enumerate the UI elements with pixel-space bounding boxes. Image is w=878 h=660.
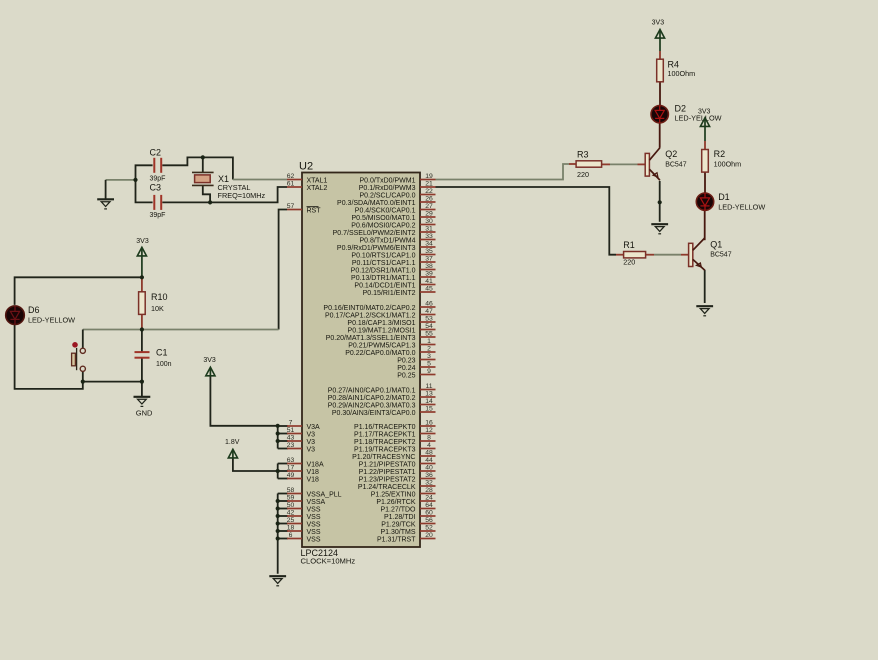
svg-text:23: 23: [287, 442, 295, 449]
svg-text:100Ohm: 100Ohm: [714, 160, 742, 169]
U2 pin 46 (P0.16/EINT0/MAT0.2/CAP0.2): [323, 300, 435, 312]
wire XTAL2 net: C3 to pin 61: [162, 187, 287, 202]
svg-text:P0.20/MAT1.3/SSEL1/EINT3: P0.20/MAT1.3/SSEL1/EINT3: [326, 335, 416, 342]
wire R4 bottom pin to D2 anode: [659, 82, 661, 106]
svg-text:P1.26/RTCK: P1.26/RTCK: [376, 499, 415, 506]
wire RST net vertical: [279, 210, 287, 330]
svg-text:P0.17/CAP1.2/SCK1/MAT1.2: P0.17/CAP1.2/SCK1/MAT1.2: [325, 312, 416, 319]
crystal X1: [192, 172, 265, 200]
U2 pin 40 (P1.22/PIPESTAT1): [359, 464, 436, 476]
svg-text:P1.22/PIPESTAT1: P1.22/PIPESTAT1: [359, 469, 416, 476]
power 3V3 at R4: [652, 20, 665, 51]
svg-text:1.8V: 1.8V: [225, 439, 240, 446]
svg-text:41: 41: [425, 278, 433, 285]
svg-text:V18: V18: [307, 469, 320, 476]
svg-text:59: 59: [287, 494, 295, 501]
svg-text:VSS: VSS: [307, 514, 321, 521]
U2 pin 25 (VSS): [287, 517, 321, 529]
svg-text:CLOCK=10MHz: CLOCK=10MHz: [301, 557, 356, 566]
wire Q1 emitter to ground: [704, 270, 706, 303]
svg-text:52: 52: [425, 524, 433, 531]
svg-text:10K: 10K: [151, 304, 164, 313]
svg-text:P0.1/RxD0/PWM3: P0.1/RxD0/PWM3: [359, 185, 416, 192]
svg-text:V3: V3: [307, 431, 316, 438]
junction VSS bus c: [276, 514, 280, 518]
resistor R2: [702, 149, 741, 172]
svg-text:P0.6/MOSI0/CAP0.2: P0.6/MOSI0/CAP0.2: [351, 222, 415, 229]
U2 pin 22 (P0.2/SCL/CAP0.0): [359, 188, 435, 200]
junction cap ground bus: [133, 178, 137, 182]
svg-text:P1.27/TDO: P1.27/TDO: [380, 506, 416, 513]
svg-text:32: 32: [425, 479, 433, 486]
svg-text:47: 47: [425, 308, 433, 315]
svg-text:P1.18/TRACEPKT2: P1.18/TRACEPKT2: [354, 439, 416, 446]
svg-text:21: 21: [425, 180, 433, 187]
U2 pin 26 (P0.3/SDA/MAT0.0/EINT1): [337, 195, 435, 207]
U2 pin 4 (P1.19/TRACEPKT3): [354, 442, 435, 454]
svg-text:D1: D1: [718, 192, 730, 202]
svg-text:LED-YELLOW: LED-YELLOW: [28, 316, 75, 325]
svg-text:18: 18: [287, 524, 295, 531]
push button: [72, 342, 86, 371]
svg-text:40: 40: [425, 464, 433, 471]
junction VSS bus e: [276, 529, 280, 533]
svg-text:P1.31/TRST: P1.31/TRST: [377, 536, 416, 543]
U2 pin 52 (P1.30/TMS): [380, 524, 435, 536]
wire D6 cathode to button bottom: [15, 324, 83, 389]
svg-text:P0.24: P0.24: [397, 365, 415, 372]
U2 pin 58 (VSSA_PLL): [287, 487, 342, 499]
svg-text:64: 64: [425, 502, 433, 509]
wire power bus stub: [278, 530, 288, 532]
svg-text:51: 51: [287, 427, 295, 434]
svg-text:RST: RST: [307, 207, 322, 214]
power 3V3 at V3 pins: [203, 357, 216, 376]
svg-text:P1.30/TMS: P1.30/TMS: [380, 529, 415, 536]
U2 pin 57 (RST): [287, 203, 322, 215]
ground below Q1: [696, 306, 713, 316]
svg-text:2: 2: [427, 345, 431, 352]
ground below U2: [269, 576, 286, 586]
svg-text:P0.8/TxD1/PWM4: P0.8/TxD1/PWM4: [359, 237, 415, 244]
wire power bus stub: [278, 470, 288, 472]
svg-text:14: 14: [425, 398, 433, 405]
svg-text:16: 16: [425, 419, 433, 426]
wire 1.8V to V18 pins: [233, 458, 278, 471]
svg-text:P0.13/DTR1/MAT1.1: P0.13/DTR1/MAT1.1: [351, 275, 416, 282]
U2 pin 53 (P0.18/CAP1.3/MISO1): [347, 315, 435, 327]
svg-text:36: 36: [425, 472, 433, 479]
wire power bus stub: [278, 433, 288, 435]
U2 pin 49 (V18): [287, 472, 319, 484]
capacitor C3: [150, 182, 166, 219]
ground below C1: [134, 397, 151, 407]
wire power bus stub: [278, 523, 288, 525]
wire P0.1 net from pin 21: [436, 187, 617, 255]
resistor R1: [623, 240, 645, 266]
junction Q2 emitter wire: [658, 200, 662, 204]
wire R3 left pin: [569, 163, 576, 165]
svg-text:C3: C3: [150, 182, 162, 192]
svg-text:V3: V3: [307, 439, 316, 446]
U2 pin 6 (VSS): [287, 532, 321, 544]
svg-text:13: 13: [425, 390, 433, 397]
svg-text:61: 61: [287, 180, 295, 187]
U2 pin 51 (V3): [287, 427, 315, 439]
svg-text:24: 24: [425, 494, 433, 501]
wire button bottom to C1 bottom: [83, 372, 142, 382]
wire power bus stub: [278, 478, 288, 480]
U2 pin 38 (P0.12/DSR1/MAT1.0): [351, 263, 436, 275]
resistor R10: [139, 292, 168, 315]
resistor R3: [576, 150, 602, 179]
svg-text:17: 17: [287, 464, 295, 471]
wire C1 top stem: [141, 330, 143, 352]
capacitor C2: [150, 148, 166, 183]
U2 pin 8 (P1.18/TRACEPKT2): [354, 434, 435, 446]
junction VSS bus f: [276, 536, 280, 540]
U2 pin 13 (P0.28/AIN1/CAP0.2/MAT0.2): [328, 390, 436, 402]
svg-text:D6: D6: [28, 305, 40, 315]
svg-text:25: 25: [287, 517, 295, 524]
wire R10 bottom pin: [141, 315, 143, 330]
wire power bus stub: [278, 500, 288, 502]
svg-text:3V3: 3V3: [203, 357, 216, 364]
wire R1 left pin: [616, 254, 624, 256]
svg-text:P1.17/TRACEPKT1: P1.17/TRACEPKT1: [354, 431, 416, 438]
svg-text:P1.20/TRACESYNC: P1.20/TRACESYNC: [352, 454, 415, 461]
U2 pin 45 (P0.15/RI1/EINT2): [363, 285, 436, 297]
wire Q2 emitter to ground: [659, 181, 661, 222]
wire ground branch from cap bus: [106, 179, 136, 181]
svg-text:33: 33: [425, 233, 433, 240]
U2 pin 30 (P0.6/MOSI0/CAP0.2): [351, 218, 435, 230]
svg-text:R2: R2: [714, 149, 726, 159]
transistor Q2: [645, 148, 687, 180]
wire R2 top pin: [704, 141, 706, 150]
U2 pin 61 (XTAL2): [287, 180, 328, 192]
svg-text:R4: R4: [668, 59, 680, 69]
U2 pin 2 (P0.22/CAP0.0/MAT0.0): [345, 345, 435, 357]
IC U2 LPC2124 body: [299, 161, 420, 566]
svg-text:34: 34: [425, 240, 433, 247]
wire power bus stub: [278, 538, 288, 540]
LED D2: [651, 103, 722, 123]
svg-text:VSS: VSS: [307, 536, 321, 543]
wire VSS bus to ground: [277, 494, 279, 574]
svg-text:P0.28/AIN1/CAP0.2/MAT0.2: P0.28/AIN1/CAP0.2/MAT0.2: [328, 395, 416, 402]
power 1.8V at V18 pins: [225, 439, 240, 458]
svg-text:P0.18/CAP1.3/MISO1: P0.18/CAP1.3/MISO1: [347, 320, 415, 327]
U2 pin 62 (XTAL1): [287, 173, 328, 185]
svg-text:P0.25: P0.25: [397, 372, 415, 379]
svg-text:3V3: 3V3: [136, 238, 149, 245]
svg-text:30: 30: [425, 218, 433, 225]
U2 pin 37 (P0.11/CTS1/CAP1.1): [352, 255, 436, 267]
U2 pin 17 (V18): [287, 464, 319, 476]
U2 pin 32 (P1.24/TRACECLK): [358, 479, 436, 491]
wire XTAL1 net: horizontal into pin 62: [233, 179, 287, 181]
ground near crystal caps: [97, 199, 114, 209]
U2 pin 44 (P1.21/PIPESTAT0): [359, 457, 436, 469]
svg-text:38: 38: [425, 263, 433, 270]
svg-text:P0.9/RxD1/PWM6/EINT3: P0.9/RxD1/PWM6/EINT3: [337, 245, 416, 252]
svg-text:220: 220: [577, 170, 589, 179]
svg-text:43: 43: [287, 434, 295, 441]
svg-text:39: 39: [425, 270, 433, 277]
svg-text:C1: C1: [156, 347, 168, 357]
junction V3 bus a: [276, 431, 280, 435]
svg-text:BC547: BC547: [665, 162, 687, 169]
U2 pin 5 (P0.24): [397, 360, 435, 372]
U2 pin 12 (P1.17/TRACEPKT1): [354, 427, 435, 439]
wire P0.0 net from pin 19: [436, 164, 570, 180]
svg-text:27: 27: [425, 203, 433, 210]
U2 pin 31 (P0.7/SSEL0/PWM2/EINT2): [333, 225, 436, 237]
svg-text:VSSA: VSSA: [307, 499, 326, 506]
U2 pin 64 (P1.27/TDO): [380, 502, 435, 514]
U2 pin 1 (P0.21/PWM5/CAP1.3): [348, 338, 435, 350]
wire R2 bottom pin to D1 anode: [704, 172, 706, 194]
svg-text:VSSA_PLL: VSSA_PLL: [307, 491, 342, 498]
svg-text:Q1: Q1: [710, 240, 722, 250]
svg-text:3: 3: [427, 353, 431, 360]
svg-text:V18: V18: [307, 476, 320, 483]
wire power bus stub: [278, 463, 288, 465]
U2 pin 24 (P1.26/RTCK): [376, 494, 435, 506]
svg-text:LED-YELLOW: LED-YELLOW: [718, 202, 765, 211]
svg-text:P0.29/AIN2/CAP0.3/MAT0.3: P0.29/AIN2/CAP0.3/MAT0.3: [328, 402, 416, 409]
wire RST net horizontal to button: [83, 329, 279, 331]
U2 pin 56 (P1.29/TCK): [381, 517, 435, 529]
svg-text:P0.16/EINT0/MAT0.2/CAP0.2: P0.16/EINT0/MAT0.2/CAP0.2: [323, 305, 415, 312]
U2 pin 47 (P0.17/CAP1.2/SCK1/MAT1.2): [325, 308, 436, 320]
ground below Q2: [651, 224, 668, 234]
svg-text:7: 7: [289, 419, 293, 426]
svg-text:P0.19/MAT1.2/MOSI1: P0.19/MAT1.2/MOSI1: [348, 327, 416, 334]
svg-text:3V3: 3V3: [652, 20, 665, 27]
U2 pin 3 (P0.23): [397, 353, 435, 365]
svg-text:P1.29/TCK: P1.29/TCK: [381, 521, 416, 528]
svg-text:P0.10/RTS1/CAP1.0: P0.10/RTS1/CAP1.0: [351, 252, 415, 259]
wire 3V3 rail to D6 and R10: [15, 277, 142, 305]
svg-text:22: 22: [425, 188, 433, 195]
svg-text:60: 60: [425, 509, 433, 516]
svg-text:15: 15: [425, 405, 433, 412]
svg-text:6: 6: [289, 532, 293, 539]
U2 pin 54 (P0.19/MAT1.2/MOSI1): [348, 323, 436, 335]
svg-text:3V3: 3V3: [698, 108, 711, 115]
svg-text:P1.25/EXTIN0: P1.25/EXTIN0: [371, 491, 416, 498]
svg-text:49: 49: [287, 472, 295, 479]
U2 pin 63 (V18A): [287, 457, 324, 469]
svg-text:42: 42: [287, 509, 295, 516]
svg-text:P0.30/AIN3/EINT3/CAP0.0: P0.30/AIN3/EINT3/CAP0.0: [332, 410, 416, 417]
svg-text:46: 46: [425, 300, 433, 307]
wire R10 top pin: [141, 277, 143, 292]
junction VSS bus b: [276, 506, 280, 510]
U2 pin 35 (P0.10/RTS1/CAP1.0): [351, 248, 435, 260]
U2 pin 19 (P0.0/TxD0/PWM1): [359, 173, 435, 185]
junction VSS bus a: [276, 499, 280, 503]
wire D2 cathode to Q2 collector: [659, 123, 661, 148]
svg-text:54: 54: [425, 323, 433, 330]
wire R4 top pin: [659, 51, 661, 59]
svg-text:VSS: VSS: [307, 506, 321, 513]
power 3V3 at R2: [698, 108, 711, 141]
wire power bus stub: [278, 440, 288, 442]
svg-text:50: 50: [287, 502, 295, 509]
svg-text:58: 58: [287, 487, 295, 494]
svg-text:BC547: BC547: [710, 252, 732, 259]
junction VSS bus d: [276, 521, 280, 525]
transistor Q1: [689, 238, 732, 270]
svg-text:D2: D2: [675, 103, 687, 113]
U2 pin 50 (VSS): [287, 502, 321, 514]
svg-text:39pF: 39pF: [150, 212, 166, 219]
svg-text:100Ohm: 100Ohm: [668, 69, 696, 78]
svg-text:9: 9: [427, 368, 431, 375]
svg-text:1: 1: [427, 338, 431, 345]
U2 pin 20 (P1.31/TRST): [377, 532, 436, 544]
U2 pin 16 (P1.16/TRACEPKT0): [354, 419, 435, 431]
U2 pin 23 (V3): [287, 442, 315, 454]
svg-text:V18A: V18A: [307, 461, 324, 468]
wire 3V3 to V3 pins: [210, 376, 277, 449]
svg-text:39pF: 39pF: [150, 175, 166, 182]
junction button bottom: [81, 380, 85, 384]
svg-text:28: 28: [425, 487, 433, 494]
U2 pin 48 (P1.20/TRACESYNC): [352, 449, 435, 461]
U2 pin 59 (VSSA): [287, 494, 326, 506]
svg-text:19: 19: [425, 173, 433, 180]
svg-text:VSS: VSS: [307, 521, 321, 528]
junction C1 bottom: [140, 380, 144, 384]
capacitor C1: [135, 347, 172, 368]
junction V3 bus b: [276, 439, 280, 443]
wire D1 cathode to Q1 collector: [704, 210, 706, 240]
svg-text:P0.15/RI1/EINT2: P0.15/RI1/EINT2: [363, 290, 416, 297]
wire Q2 base pin: [638, 163, 646, 165]
power 3V3 at R10: [136, 238, 149, 277]
svg-text:57: 57: [287, 203, 295, 210]
svg-text:62: 62: [287, 173, 295, 180]
junction V3A bus: [276, 424, 280, 428]
svg-text:V3: V3: [307, 446, 316, 453]
svg-text:53: 53: [425, 315, 433, 322]
svg-text:26: 26: [425, 195, 433, 202]
svg-text:P0.0/TxD0/PWM1: P0.0/TxD0/PWM1: [359, 177, 415, 184]
U2 pin 33 (P0.8/TxD1/PWM4): [359, 233, 435, 245]
U2 pin 28 (P1.25/EXTIN0): [371, 487, 436, 499]
wire crystal top stem: [202, 157, 204, 172]
svg-text:VSS: VSS: [307, 529, 321, 536]
svg-text:P0.12/DSR1/MAT1.0: P0.12/DSR1/MAT1.0: [351, 267, 416, 274]
LED D6: [6, 305, 75, 324]
wire crystal bottom stem: [203, 185, 210, 202]
svg-text:P0.11/CTS1/CAP1.1: P0.11/CTS1/CAP1.1: [352, 260, 416, 267]
svg-text:220: 220: [623, 257, 635, 266]
U2 pin 18 (VSS): [287, 524, 321, 536]
svg-text:R1: R1: [623, 240, 635, 250]
U2 pin 41 (P0.14/DCD1/EINT1): [354, 278, 435, 290]
U2 pin 43 (V3): [287, 434, 315, 446]
wire power bus stub: [278, 448, 288, 450]
svg-text:P1.19/TRACEPKT3: P1.19/TRACEPKT3: [354, 446, 416, 453]
wire power bus stub: [278, 493, 288, 495]
svg-text:P1.16/TRACEPKT0: P1.16/TRACEPKT0: [354, 424, 416, 431]
U2 pin 55 (P0.20/MAT1.3/SSEL1/EINT3): [326, 330, 436, 342]
junction crystal bottom: [208, 200, 212, 204]
svg-text:35: 35: [425, 248, 433, 255]
svg-text:55: 55: [425, 330, 433, 337]
svg-text:P0.3/SDA/MAT0.0/EINT1: P0.3/SDA/MAT0.0/EINT1: [337, 200, 416, 207]
svg-text:5: 5: [427, 360, 431, 367]
junction RST node: [140, 327, 144, 331]
svg-text:FREQ=10MHz: FREQ=10MHz: [218, 191, 266, 200]
svg-text:45: 45: [425, 285, 433, 292]
wire XTAL1 net: C2 right plate to top rail: [162, 157, 233, 179]
svg-text:29: 29: [425, 210, 433, 217]
wire ground stem left: [105, 180, 107, 199]
U2 pin 42 (VSS): [287, 509, 321, 521]
svg-text:44: 44: [425, 457, 433, 464]
svg-text:XTAL2: XTAL2: [307, 185, 328, 192]
wire power bus stub: [278, 508, 288, 510]
svg-text:P0.27/AIN0/CAP0.1/MAT0.1: P0.27/AIN0/CAP0.1/MAT0.1: [328, 387, 416, 394]
U2 pin 11 (P0.27/AIN0/CAP0.1/MAT0.1): [328, 383, 436, 395]
junction crystal top: [201, 155, 205, 159]
svg-text:31: 31: [425, 225, 433, 232]
U2 pin 15 (P0.30/AIN3/EINT3/CAP0.0): [332, 405, 436, 417]
wire C2/C3 left vertical bus: [136, 165, 153, 202]
svg-text:12: 12: [425, 427, 433, 434]
svg-text:P1.21/PIPESTAT0: P1.21/PIPESTAT0: [359, 461, 416, 468]
junction 3V3 rail at R10: [140, 275, 144, 279]
svg-text:XTAL1: XTAL1: [307, 177, 328, 184]
svg-text:P1.23/PIPESTAT2: P1.23/PIPESTAT2: [359, 476, 416, 483]
wire Q1 base pin: [681, 254, 689, 256]
svg-text:37: 37: [425, 255, 433, 262]
svg-text:GND: GND: [136, 409, 153, 418]
wire R3 to Q2 base: [610, 163, 638, 165]
svg-text:56: 56: [425, 517, 433, 524]
svg-text:P1.28/TDI: P1.28/TDI: [384, 514, 416, 521]
U2 pin 27 (P0.4/SCK0/CAP0.1): [355, 203, 436, 215]
svg-text:R10: R10: [151, 292, 168, 302]
svg-text:Q2: Q2: [665, 149, 677, 159]
svg-text:P1.24/TRACECLK: P1.24/TRACECLK: [358, 484, 416, 491]
wire R3 right pin: [602, 163, 610, 165]
svg-text:P0.4/SCK0/CAP0.1: P0.4/SCK0/CAP0.1: [355, 207, 416, 214]
svg-text:100n: 100n: [156, 361, 172, 368]
svg-text:P0.21/PWM5/CAP1.3: P0.21/PWM5/CAP1.3: [348, 342, 415, 349]
U2 pin 21 (P0.1/RxD0/PWM3): [359, 180, 436, 192]
svg-text:4: 4: [427, 442, 431, 449]
resistor R4: [657, 59, 695, 82]
svg-text:U2: U2: [299, 161, 313, 173]
U2 pin 34 (P0.9/RxD1/PWM6/EINT3): [337, 240, 436, 252]
wire C1 bottom stem to ground: [141, 358, 143, 397]
svg-text:R3: R3: [577, 150, 589, 160]
svg-text:8: 8: [427, 434, 431, 441]
svg-text:P0.5/MISO0/MAT0.1: P0.5/MISO0/MAT0.1: [351, 215, 415, 222]
svg-text:P0.7/SSEL0/PWM2/EINT2: P0.7/SSEL0/PWM2/EINT2: [333, 230, 416, 237]
svg-text:P0.22/CAP0.0/MAT0.0: P0.22/CAP0.0/MAT0.0: [345, 350, 415, 357]
wire button top stem: [82, 330, 84, 349]
U2 pin 36 (P1.23/PIPESTAT2): [359, 472, 436, 484]
svg-text:11: 11: [425, 383, 432, 390]
